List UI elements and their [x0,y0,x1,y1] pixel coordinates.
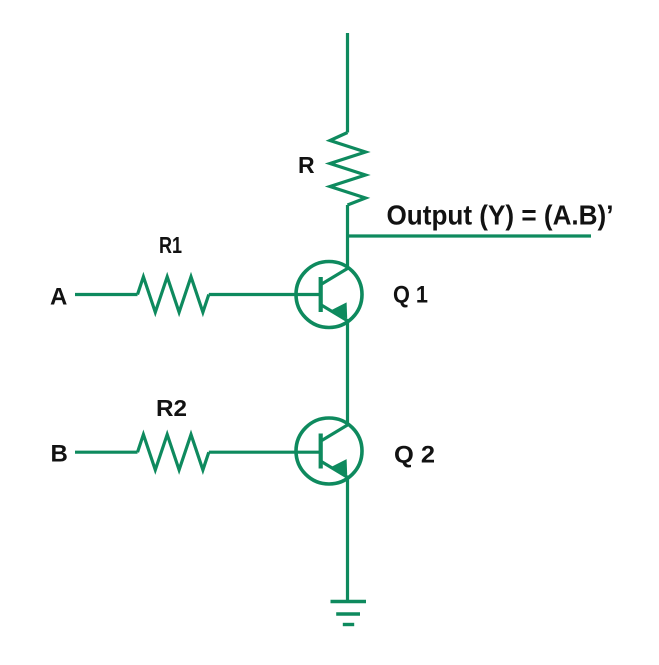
ground [331,602,367,625]
svg-text:Q 2: Q 2 [394,441,435,468]
svg-text:A: A [50,284,67,311]
svg-text:R: R [298,152,315,178]
wire R1 to Q1 base [209,293,319,296]
svg-text:B: B [51,440,68,467]
transistor Q2 [296,418,362,484]
wire Q1 emitter to Q2 collector [346,320,349,425]
wire R bottom to Q1 collector [346,205,349,269]
wire Q2 emitter to ground [346,477,349,602]
svg-text:R1: R1 [159,232,182,258]
resistor R2 [138,435,209,470]
svg-text:R2: R2 [156,395,187,421]
wire input B [75,451,138,454]
wire input A [75,293,138,296]
svg-text:Output (Y) = (A.B)’: Output (Y) = (A.B)’ [387,200,614,231]
wire R2 to Q2 base [209,451,319,454]
transistor Q1 [296,262,362,328]
resistor R [330,133,366,206]
wire Vcc vertical [346,33,349,133]
svg-text:Q 1: Q 1 [393,281,428,308]
resistor R1 [138,277,209,312]
wire output [348,234,592,237]
